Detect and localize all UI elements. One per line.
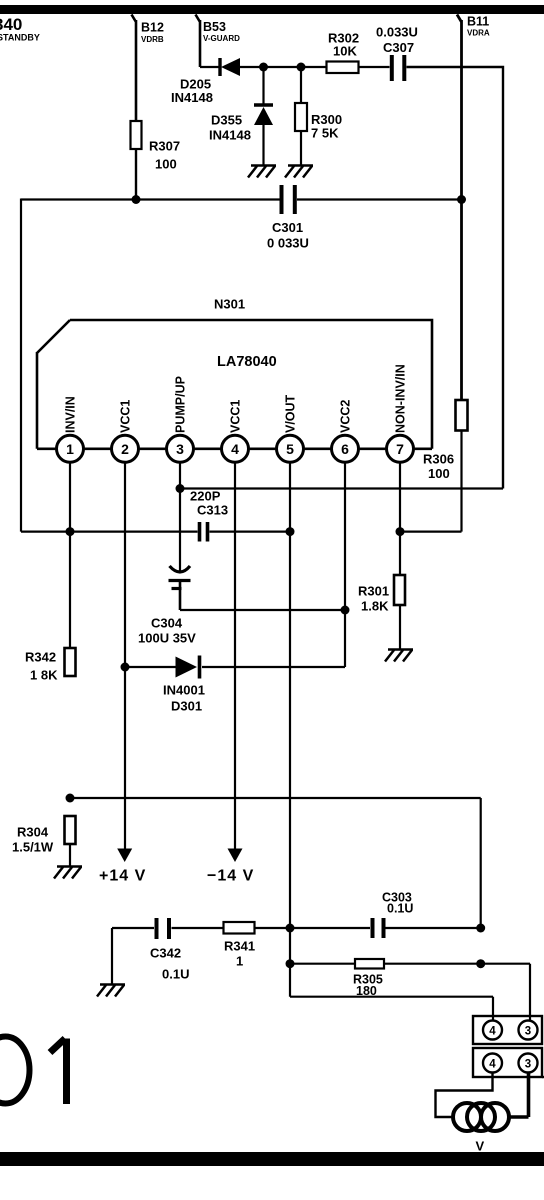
svg-text:1.8K: 1.8K <box>361 599 389 614</box>
svg-text:IN4001: IN4001 <box>163 683 205 698</box>
wire C304 bottom to pin6 <box>180 609 345 611</box>
wire C307 right then down to 220P row <box>407 67 504 489</box>
ground below R300 <box>285 166 313 178</box>
capacitor C313 <box>190 489 228 542</box>
svg-text:D301: D301 <box>171 699 202 714</box>
svg-text:1.5/1W: 1.5/1W <box>12 840 54 855</box>
junction dot right leg at row 963 <box>476 959 485 968</box>
junction dot pin1 at C313 row <box>66 527 75 536</box>
svg-text:R301: R301 <box>358 584 389 599</box>
node B340 STANDBY label <box>0 15 40 43</box>
big sheet number 01 <box>0 1037 67 1105</box>
wire C342 R341 C303 row <box>112 927 481 929</box>
junction dot pin5 at row 963 <box>286 959 295 968</box>
svg-text:IN4148: IN4148 <box>209 128 251 143</box>
svg-text:−14 V: −14 V <box>207 868 254 885</box>
resistor R304 <box>12 816 76 866</box>
svg-text:2: 2 <box>121 441 129 457</box>
wire C301 row <box>21 198 462 200</box>
wire 220P row <box>180 487 503 489</box>
resistor R307 <box>131 121 181 172</box>
wire R302 to C307 <box>359 66 390 68</box>
pin 5 circle <box>277 435 304 462</box>
svg-text:VCC1: VCC1 <box>119 400 133 433</box>
svg-text:D355: D355 <box>211 113 242 128</box>
svg-text:C301: C301 <box>272 220 303 235</box>
pin 3 circle <box>167 435 194 462</box>
svg-text:C342: C342 <box>150 946 181 961</box>
svg-text:PUMP/UP: PUMP/UP <box>174 376 188 433</box>
wire coil to J2 pin3 <box>510 1073 529 1118</box>
junction dot pin5 at C313 row <box>286 527 295 536</box>
svg-text:C313: C313 <box>197 503 228 518</box>
node B11 VDRA tag <box>457 15 490 401</box>
svg-text:1: 1 <box>236 954 243 969</box>
wire row to C303 right leg <box>70 798 481 928</box>
capacitor C342 <box>150 918 189 982</box>
resistor R306 <box>423 400 468 481</box>
wire pin3 drop <box>179 462 181 573</box>
wire R307 to C301 row <box>135 149 137 200</box>
junction dot R300 branch <box>297 63 306 72</box>
diode D355 <box>209 67 273 165</box>
wire pin6 drop to D301 row <box>202 462 345 667</box>
svg-text:7 5K: 7 5K <box>311 126 339 141</box>
IC bottom edge through pins <box>37 447 432 450</box>
svg-text:220P: 220P <box>190 489 221 504</box>
diode D205 <box>171 58 240 105</box>
pin 4 circle <box>222 435 249 462</box>
svg-text:4: 4 <box>489 1059 496 1071</box>
junction dot R307 at C301 row <box>132 195 141 204</box>
svg-text:V-GUARD: V-GUARD <box>203 34 240 43</box>
svg-text:VCC1: VCC1 <box>229 400 243 433</box>
+14V supply arrow <box>99 849 146 885</box>
svg-text:V/OUT: V/OUT <box>284 394 298 433</box>
svg-text:100: 100 <box>428 466 450 481</box>
wire bottom row to connector pin 4 <box>290 997 493 1021</box>
svg-text:R307: R307 <box>149 139 180 154</box>
ground below R301 <box>385 650 413 662</box>
resistor R301 <box>358 575 405 614</box>
svg-text:4: 4 <box>489 1026 496 1038</box>
svg-text:+14 V: +14 V <box>99 868 146 885</box>
svg-text:C304: C304 <box>151 616 183 631</box>
svg-text:3: 3 <box>525 1026 531 1038</box>
resistor R302 <box>327 31 360 74</box>
resistor R342 <box>25 648 76 683</box>
svg-text:VDRB: VDRB <box>141 35 164 44</box>
capacitor C303 <box>373 891 414 939</box>
wire C313 row <box>21 530 290 532</box>
wire R305 row <box>290 964 530 1021</box>
connector J1 pin 4 <box>483 1021 502 1040</box>
pin 6 circle <box>332 435 359 462</box>
svg-text:100: 100 <box>155 157 177 172</box>
wire J2 box bottom edge extension <box>542 1076 544 1078</box>
svg-text:3: 3 <box>525 1059 531 1071</box>
svg-text:R304: R304 <box>17 825 49 840</box>
svg-text:N301: N301 <box>214 297 245 312</box>
svg-text:VCC2: VCC2 <box>339 400 353 433</box>
svg-text:VDRA: VDRA <box>467 29 490 38</box>
junction dot D355 branch <box>259 63 268 72</box>
wire pin4 drop <box>234 462 236 849</box>
ground below C342 <box>97 985 125 997</box>
junction dot B11 at C301 row <box>457 195 466 204</box>
junction dot pin2 at D301 row <box>121 663 130 672</box>
wire C342 left leg to ground <box>111 928 113 984</box>
connector J2 pin 3 <box>519 1054 538 1073</box>
wire pin5 drop <box>289 462 291 996</box>
svg-text:1 8K: 1 8K <box>30 668 58 683</box>
svg-text:100U 35V: 100U 35V <box>138 631 196 646</box>
wire pin2 drop <box>124 462 126 849</box>
wire J2 pin4 to coil <box>436 1073 493 1118</box>
svg-text:V: V <box>476 1139 485 1154</box>
junction dot pin6 at C304 row <box>341 606 350 615</box>
svg-text:0.1U: 0.1U <box>387 902 413 916</box>
wire R301 to ground <box>399 605 401 649</box>
svg-text:0.033U: 0.033U <box>376 25 418 40</box>
svg-text:LA78040: LA78040 <box>217 354 277 370</box>
node B12 VDRB tag <box>132 15 164 122</box>
connector J2 pin 4 <box>483 1054 502 1073</box>
wire pin7 drop <box>399 462 401 575</box>
pin 7 circle <box>387 435 414 462</box>
svg-text:5: 5 <box>286 441 294 457</box>
svg-text:10K: 10K <box>333 44 357 59</box>
capacitor C304 <box>138 566 196 646</box>
diode D301 <box>125 656 205 714</box>
svg-text:7: 7 <box>396 441 404 457</box>
connector J1 upper box <box>473 1016 542 1044</box>
resistor R341 <box>224 922 256 969</box>
capacitor C301 <box>267 185 309 251</box>
deflection coil V <box>453 1103 509 1154</box>
node B53 V-GUARD tag <box>196 15 241 68</box>
junction dot pin5 at row 928 <box>286 924 295 933</box>
svg-text:R306: R306 <box>423 452 454 467</box>
top border bar <box>0 5 544 14</box>
svg-text:6: 6 <box>341 441 349 457</box>
ground below R304 <box>54 867 82 879</box>
svg-text:B11: B11 <box>467 15 489 29</box>
bottom border bar <box>0 1152 544 1166</box>
capacitor C307 <box>376 25 418 82</box>
svg-text:3: 3 <box>176 441 184 457</box>
svg-text:INV/IN: INV/IN <box>64 396 78 433</box>
svg-text:0.1U: 0.1U <box>162 967 189 982</box>
junction dot C303 right at row 928 <box>476 924 485 933</box>
svg-text:IN4148: IN4148 <box>171 90 213 105</box>
ground below D355 <box>248 166 276 178</box>
svg-text:R342: R342 <box>25 650 56 665</box>
svg-text:340: 340 <box>0 15 22 34</box>
svg-text:B53: B53 <box>203 20 226 34</box>
wire left rail <box>20 199 22 532</box>
pin 2 circle <box>112 435 139 462</box>
resistor R300 <box>295 67 342 165</box>
svg-text:4: 4 <box>231 441 239 457</box>
wire R306 down to pin7 row <box>400 431 462 532</box>
svg-text:R341: R341 <box>224 939 255 954</box>
pin 1 circle <box>57 435 84 462</box>
svg-text:B12: B12 <box>141 21 164 35</box>
op-amp IC N301 outline <box>37 297 432 449</box>
svg-text:1: 1 <box>66 441 74 457</box>
connector J1 pin 3 <box>519 1021 538 1040</box>
junction dot pin1 at row 798 <box>66 794 75 803</box>
svg-text:NON-INV/IN: NON-INV/IN <box>394 364 408 433</box>
-14V supply arrow <box>207 849 254 885</box>
wire pin1 drop <box>69 462 71 648</box>
svg-text:STANDBY: STANDBY <box>0 33 40 43</box>
resistor R305 <box>353 959 384 998</box>
junction dot pin7 row <box>396 527 405 536</box>
connector J2 lower box <box>473 1048 542 1077</box>
wire top row B53 to R302 <box>200 66 327 68</box>
junction dot pin3 at 220P row <box>176 484 185 493</box>
svg-text:C307: C307 <box>383 40 414 55</box>
svg-text:0 033U: 0 033U <box>267 236 309 251</box>
